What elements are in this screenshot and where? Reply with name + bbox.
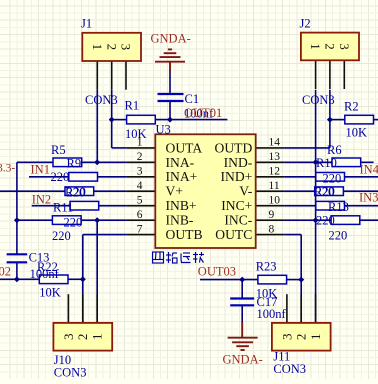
pin 9 of U3 <box>256 219 285 221</box>
svg-text:INB-: INB- <box>166 213 194 228</box>
svg-text:R13: R13 <box>328 200 349 214</box>
wire J2 pin2 down to IC pin14 row <box>329 90 331 148</box>
svg-text:R11: R11 <box>53 201 73 215</box>
wire R10 right lead <box>361 161 374 163</box>
svg-text:IN4: IN4 <box>360 163 378 177</box>
pin 6 of U3 <box>127 219 156 221</box>
svg-text:INA+: INA+ <box>166 169 198 184</box>
svg-text:OUT03: OUT03 <box>198 265 236 279</box>
stem of bottom GNDA- power port <box>241 322 243 338</box>
svg-text:14: 14 <box>269 137 281 149</box>
svg-text:2: 2 <box>104 44 119 51</box>
svg-text:3: 3 <box>337 43 352 50</box>
svg-text:6: 6 <box>137 209 143 221</box>
svg-text:OUTB: OUTB <box>166 227 203 242</box>
resistor R23 <box>258 275 287 284</box>
svg-text:OUT01: OUT01 <box>184 106 222 120</box>
wire OUT03 net <box>200 279 258 281</box>
svg-text:220: 220 <box>323 171 342 185</box>
wire R2 left lead <box>330 119 345 121</box>
wire IC pin8 row <box>284 234 301 236</box>
resistor R22 <box>39 275 68 284</box>
pin 13 of U3 <box>256 161 285 163</box>
wire R1 left lead <box>112 119 127 121</box>
svg-text:3: 3 <box>279 334 294 341</box>
wire IC pin12 to 220 resistor <box>284 176 315 178</box>
svg-text:220: 220 <box>316 185 335 199</box>
svg-text:INA-: INA- <box>166 155 195 170</box>
svg-text:5: 5 <box>137 195 143 207</box>
svg-text:10: 10 <box>269 195 281 207</box>
svg-text:11: 11 <box>269 180 280 192</box>
svg-text:GNDA-: GNDA- <box>223 353 263 367</box>
node C1 / OUT01 <box>167 117 173 123</box>
svg-text:IN1: IN1 <box>31 163 50 177</box>
node R23 / J11 pin2 wire <box>298 277 304 283</box>
svg-text:2: 2 <box>323 43 338 50</box>
svg-text:220: 220 <box>316 214 335 228</box>
svg-text:R6: R6 <box>327 143 342 157</box>
resistor on IN1 row (pin3) <box>69 173 98 182</box>
ground GNDA- (bottom) <box>228 337 258 339</box>
pin 7 of U3 <box>127 234 156 236</box>
wire to IC pin1 <box>112 147 127 149</box>
pin 1 of U3 <box>127 147 156 149</box>
svg-text:220: 220 <box>329 229 348 243</box>
wire R22 right lead <box>68 278 83 280</box>
svg-text:V+: V+ <box>166 184 183 199</box>
wire 3.3- net to R9 <box>17 161 53 163</box>
svg-text:J1: J1 <box>81 17 92 31</box>
svg-text:OUTD: OUTD <box>215 140 253 155</box>
svg-text:2: 2 <box>75 334 90 341</box>
pin 4 of U3 <box>127 190 156 192</box>
pin 14 of U3 <box>256 147 285 149</box>
wire IC pin7 row <box>83 234 127 236</box>
connector J1 body <box>82 33 141 61</box>
wire R23 right lead <box>287 279 302 281</box>
resistor 220 (row pin6) <box>52 216 81 225</box>
node C13 / OUT02 row <box>14 276 20 282</box>
wire 3.3- rail down to C13 <box>16 162 18 254</box>
wire R20 row to IC pin4 <box>0 190 127 192</box>
resistor R2 <box>345 115 374 124</box>
svg-text:10K: 10K <box>39 285 61 299</box>
wire IN1 to resistor <box>29 176 69 178</box>
wire IC pin8 down to J11 pin2 <box>300 235 302 323</box>
pin 12 of U3 <box>256 176 285 178</box>
capacitor C1 <box>158 93 184 95</box>
resistor R1 <box>127 115 156 124</box>
wire GNDA- to C1 <box>169 72 171 94</box>
resistor R11 (row pin5) <box>70 201 99 210</box>
svg-text:220: 220 <box>52 229 71 243</box>
svg-text:9: 9 <box>269 209 275 221</box>
resistor R10 (row pin13) <box>332 158 361 167</box>
wire C17 upper lead <box>241 280 243 299</box>
svg-text:7: 7 <box>137 223 143 235</box>
svg-text:J2: J2 <box>300 17 311 31</box>
wire J1 pin2 down to IC pin1 row <box>111 90 113 148</box>
stem of GNDA- power port <box>169 62 171 73</box>
svg-text:IND+: IND+ <box>220 169 252 184</box>
resistor R20 (row pin4) <box>65 187 94 196</box>
svg-text:R9: R9 <box>67 156 82 170</box>
svg-text:CON3: CON3 <box>273 362 306 376</box>
connector J11 body <box>272 323 331 351</box>
svg-text:3.3-: 3.3- <box>0 163 15 175</box>
wire IN2 to R11 <box>32 205 70 207</box>
svg-text:IND-: IND- <box>224 155 253 170</box>
svg-text:1: 1 <box>308 43 323 50</box>
svg-text:2: 2 <box>137 151 143 163</box>
wire R2 right lead <box>374 119 378 121</box>
node rail / IC pin9 row <box>313 217 319 223</box>
wire IN3 net <box>345 205 378 207</box>
svg-text:OUTA: OUTA <box>166 140 203 155</box>
svg-text:R23: R23 <box>256 260 277 274</box>
wire OUT02 net to R22 <box>0 278 39 280</box>
node pin6 row / J10 pin1 <box>94 217 100 223</box>
pin 5 of U3 <box>127 205 156 207</box>
wire 220 right lead <box>360 219 378 221</box>
svg-text:CON3: CON3 <box>85 93 118 107</box>
wire J1 pin1 down to node at IC pin2 row <box>96 90 98 163</box>
wire IC pin13 to resistor R10 <box>284 161 332 163</box>
wire IC pin9 to 220 resistor <box>284 219 331 221</box>
svg-text:INC-: INC- <box>224 213 252 228</box>
node J1 pin1 / IC pin2 row <box>94 159 100 165</box>
svg-text:3: 3 <box>119 44 134 51</box>
svg-text:CON3: CON3 <box>302 93 335 107</box>
svg-text:IN3: IN3 <box>359 191 378 205</box>
pins of J1 <box>96 61 98 90</box>
svg-text:100nf: 100nf <box>30 267 60 281</box>
wire 220 resistor to IC pin6 <box>81 219 127 221</box>
svg-text:INB+: INB+ <box>166 198 197 213</box>
pin 8 of U3 <box>256 234 285 236</box>
pin 3 of U3 <box>127 176 156 178</box>
wire IN4 net <box>345 176 378 178</box>
svg-text:U3: U3 <box>156 123 171 137</box>
svg-text:R5: R5 <box>51 143 66 157</box>
wire resistor to IC pin3 <box>98 176 127 178</box>
wire R11 to IC pin5 <box>99 205 127 207</box>
connector J2 body <box>301 33 359 61</box>
comment text 'quad op-amp' under U3 <box>153 252 205 263</box>
svg-text:220: 220 <box>51 170 70 184</box>
node R2 / J2 pin2 <box>327 117 333 123</box>
capacitor C17 <box>230 297 254 299</box>
svg-text:CON3: CON3 <box>54 366 87 380</box>
pins of J11 <box>286 294 288 323</box>
svg-text:GNDA-: GNDA- <box>151 31 191 45</box>
pins of J2 <box>315 60 317 89</box>
svg-text:INC+: INC+ <box>221 198 252 213</box>
capacitor C13 <box>7 253 28 255</box>
svg-text:1: 1 <box>90 334 105 341</box>
wire rail to 220 resistor <box>17 219 53 221</box>
node rail / pin6 row <box>14 217 20 223</box>
svg-text:8: 8 <box>269 223 275 235</box>
svg-text:12: 12 <box>269 166 281 178</box>
svg-text:R2: R2 <box>344 100 359 114</box>
svg-text:4: 4 <box>137 180 143 192</box>
pin 10 of U3 <box>256 205 285 207</box>
svg-text:R1: R1 <box>125 99 140 113</box>
wire C1 lower lead <box>169 101 171 120</box>
wire R9 to IC pin2 <box>82 161 127 163</box>
svg-text:V-: V- <box>239 184 253 199</box>
node R22 / J10 pin2 wire <box>80 276 86 282</box>
resistor R13 (row pin10) <box>316 201 345 210</box>
svg-text:3: 3 <box>137 166 143 178</box>
resistor 220 (row pin9) <box>331 216 360 225</box>
wire C17 lower lead <box>241 305 243 322</box>
svg-text:02: 02 <box>0 265 11 279</box>
wire IC pin11 row <box>284 190 378 192</box>
node R1 / J1 pin2 <box>109 117 115 123</box>
svg-text:IN2: IN2 <box>32 192 51 206</box>
node C17 / OUT03 row <box>239 277 245 283</box>
svg-text:R10: R10 <box>316 156 337 170</box>
svg-text:3: 3 <box>61 334 76 341</box>
wire IC pin6 node down to J10 pin1 <box>96 220 98 323</box>
wire IC pin10 to R13 <box>284 205 315 207</box>
svg-text:C1: C1 <box>185 92 200 106</box>
svg-text:10K: 10K <box>346 126 368 140</box>
ground GNDA- (top, inverted) <box>155 61 185 63</box>
pins of J10 <box>67 294 69 323</box>
svg-text:13: 13 <box>269 151 281 163</box>
wire OUT01 net from R1 <box>155 119 227 121</box>
pin 11 of U3 <box>256 190 285 192</box>
resistor R20 (row pin11) <box>315 187 344 196</box>
svg-text:1: 1 <box>308 334 323 341</box>
svg-text:OUTC: OUTC <box>215 227 252 242</box>
wire C13 lower lead <box>16 262 18 279</box>
wire J2 pin1 rail down to J11 pin1 <box>315 90 317 323</box>
connector J10 body <box>53 323 112 351</box>
wire IC pin7 down to J10 pin2 <box>82 235 84 323</box>
node rail / IC pin13 row <box>313 159 319 165</box>
svg-text:220: 220 <box>67 185 86 199</box>
wire IC pin14 row <box>284 147 330 149</box>
pin 2 of U3 <box>127 161 156 163</box>
svg-text:1: 1 <box>90 44 105 51</box>
op-amp IC U3 body <box>155 134 255 248</box>
resistor R9 (row pin2) <box>53 158 82 167</box>
svg-text:10K: 10K <box>125 127 147 141</box>
resistor 220 (row pin12) <box>316 173 345 182</box>
svg-text:100nf: 100nf <box>257 307 287 321</box>
svg-text:2: 2 <box>294 334 309 341</box>
svg-text:220: 220 <box>64 216 83 230</box>
